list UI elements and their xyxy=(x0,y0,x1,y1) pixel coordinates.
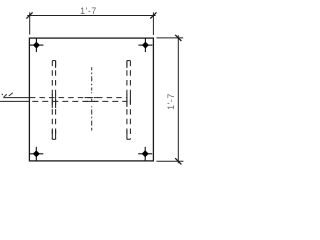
svg-text:1'-7: 1'-7 xyxy=(166,93,176,110)
svg-text:1'-7: 1'-7 xyxy=(80,6,97,16)
